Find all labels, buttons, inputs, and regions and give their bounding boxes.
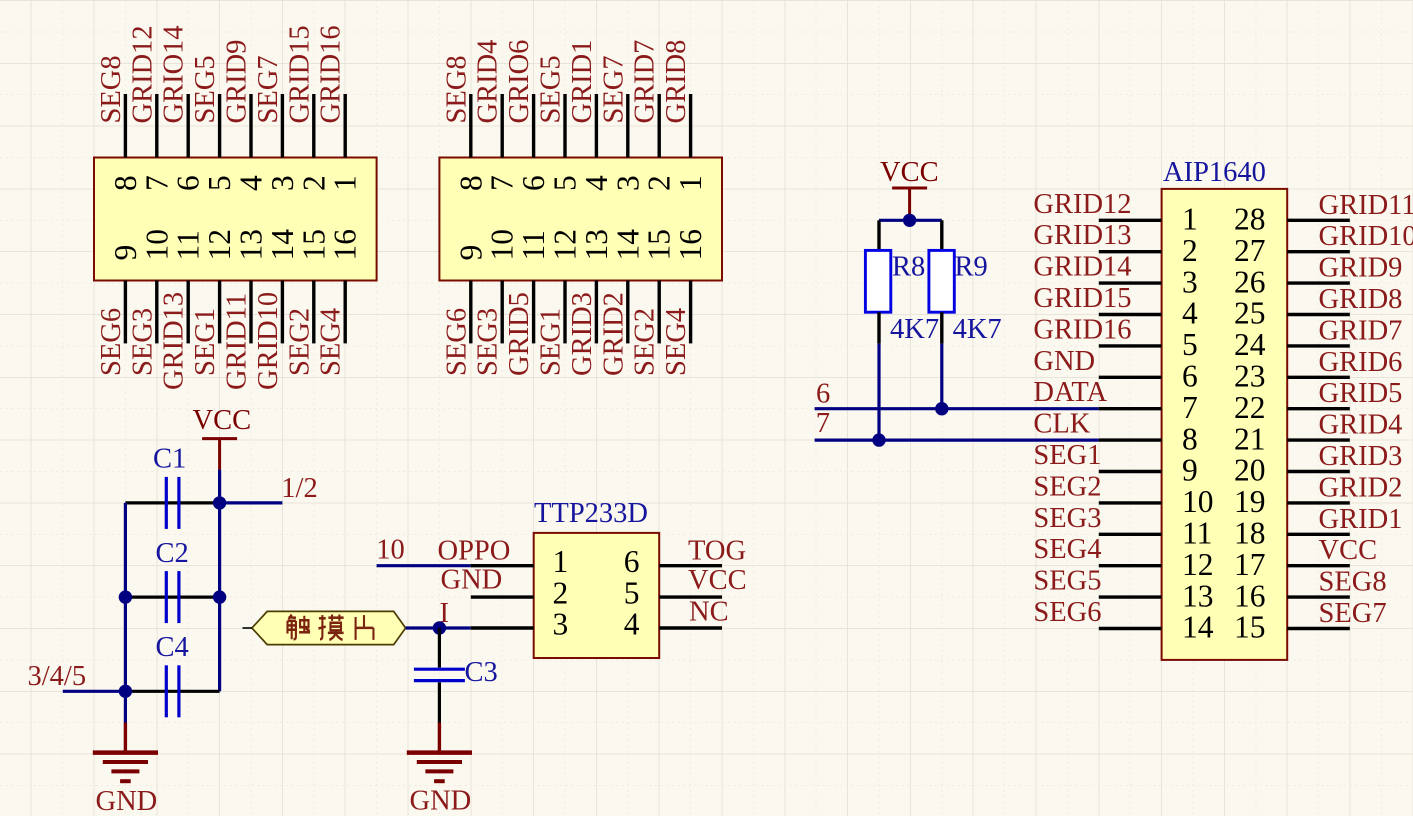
- svg-text:AIP1640: AIP1640: [1163, 157, 1266, 188]
- capacitor C2: [166, 571, 179, 623]
- port text 触摸片 (hand-drawn strokes): [288, 615, 374, 640]
- capacitor C1: [166, 477, 179, 529]
- P2 top pin 5 (SEG5): [548, 94, 583, 191]
- svg-text:12: 12: [548, 229, 583, 261]
- svg-text:TTP233D: TTP233D: [534, 498, 648, 529]
- svg-text:SEG7: SEG7: [253, 55, 284, 123]
- junction touch node: [433, 621, 446, 634]
- svg-text:4: 4: [579, 175, 614, 191]
- svg-text:6: 6: [816, 378, 830, 409]
- P2 top pin 3 (SEG7): [610, 94, 645, 191]
- junction node 3/4/5: [119, 685, 132, 698]
- junction C2 left: [119, 590, 132, 603]
- svg-text:SEG8: SEG8: [1319, 567, 1387, 598]
- svg-text:10: 10: [1182, 484, 1214, 519]
- svg-text:GRID5: GRID5: [1319, 378, 1403, 409]
- wire VCC stem to node 1/2: [218, 470, 221, 503]
- svg-text:SEG1: SEG1: [1033, 440, 1101, 471]
- U2 pin 12 (SEG4): [1099, 547, 1214, 582]
- svg-text:GRID9: GRID9: [222, 40, 253, 124]
- svg-text:7: 7: [485, 175, 520, 191]
- wire DATA net: [815, 407, 1099, 410]
- svg-text:2: 2: [1182, 233, 1198, 268]
- svg-text:4: 4: [624, 606, 640, 641]
- svg-text:GRID3: GRID3: [1319, 441, 1403, 472]
- svg-text:4: 4: [1182, 296, 1198, 331]
- P1 top pin 5 (SEG5): [202, 94, 237, 191]
- svg-text:24: 24: [1234, 327, 1266, 362]
- U2 pin 26 (GRID9): [1234, 264, 1350, 299]
- svg-text:5: 5: [548, 175, 583, 191]
- U2 pin 14 (SEG6): [1099, 610, 1214, 645]
- svg-text:4K7: 4K7: [953, 314, 1002, 345]
- svg-text:9: 9: [453, 245, 488, 261]
- svg-text:1: 1: [553, 544, 569, 579]
- svg-text:GRID15: GRID15: [1033, 283, 1131, 314]
- U2 pin 6 (GND): [1099, 359, 1198, 394]
- P2 top pin 7 (GRID4): [485, 94, 520, 191]
- svg-text:9: 9: [108, 245, 143, 261]
- U2 pin 3 (GRID14): [1099, 264, 1198, 299]
- svg-text:SEG5: SEG5: [1033, 566, 1101, 597]
- svg-text:SEG7: SEG7: [1319, 598, 1387, 629]
- P1 bottom pin 13 (GRID11): [234, 229, 269, 343]
- svg-text:25: 25: [1234, 296, 1266, 331]
- U2 pin 27 (GRID10): [1234, 233, 1350, 268]
- svg-text:GND: GND: [410, 786, 472, 817]
- svg-text:10: 10: [485, 229, 520, 261]
- svg-text:GRID10: GRID10: [253, 292, 284, 390]
- svg-text:SEG6: SEG6: [441, 308, 472, 376]
- junction DATA-R9: [935, 402, 948, 415]
- svg-text:GRID16: GRID16: [316, 25, 347, 123]
- svg-text:6: 6: [171, 175, 206, 191]
- svg-text:SEG3: SEG3: [473, 308, 504, 376]
- svg-text:5: 5: [1182, 327, 1198, 362]
- svg-text:27: 27: [1234, 233, 1266, 268]
- U2 pin 23 (GRID6): [1234, 359, 1350, 394]
- svg-text:15: 15: [642, 229, 677, 261]
- ground symbol (touch circuit): [407, 723, 472, 782]
- svg-text:28: 28: [1234, 202, 1266, 237]
- U2 pin 28 (GRID11): [1234, 202, 1350, 237]
- svg-text:SEG8: SEG8: [441, 55, 472, 123]
- U1 pin 1 stub: [471, 564, 534, 567]
- wire to net 1/2: [220, 501, 283, 504]
- svg-text:GRID4: GRID4: [1319, 410, 1403, 441]
- svg-text:SEG4: SEG4: [1033, 534, 1101, 565]
- wire left vertical bus: [124, 503, 127, 691]
- svg-text:1/2: 1/2: [281, 473, 317, 504]
- P2 bottom pin 16 (SEG4): [673, 229, 708, 343]
- svg-text:13: 13: [579, 229, 614, 261]
- svg-text:6: 6: [1182, 359, 1198, 394]
- svg-text:8: 8: [108, 175, 143, 191]
- svg-text:14: 14: [610, 229, 645, 261]
- svg-text:11: 11: [1182, 516, 1212, 551]
- svg-text:20: 20: [1234, 453, 1266, 488]
- P1 top pin 2 (GRID15): [296, 94, 331, 191]
- svg-text:14: 14: [1182, 610, 1214, 645]
- svg-text:9: 9: [1182, 453, 1198, 488]
- svg-text:SEG3: SEG3: [1033, 503, 1101, 534]
- resistor R9 body: [929, 250, 954, 312]
- svg-text:10: 10: [376, 535, 405, 566]
- junction node 1/2: [213, 496, 226, 509]
- wire C4 row: [125, 690, 219, 693]
- U2 pin 18 (GRID1): [1234, 516, 1350, 551]
- svg-text:GRIO14: GRIO14: [159, 25, 190, 123]
- svg-text:11: 11: [171, 230, 206, 260]
- R9 bottom pin: [940, 312, 943, 343]
- U2 pin 17 (VCC): [1234, 547, 1350, 582]
- svg-text:GRID7: GRID7: [1319, 315, 1403, 346]
- U1 pin 6 stub: [659, 564, 722, 567]
- U2 pin 16 (SEG8): [1234, 578, 1350, 613]
- svg-text:13: 13: [234, 229, 269, 261]
- svg-text:3: 3: [265, 175, 300, 191]
- touch IC U1 TTP233D body: [534, 533, 660, 658]
- R8 top pin: [877, 220, 880, 250]
- svg-text:NC: NC: [689, 597, 729, 628]
- wire to net 3/4/5: [63, 690, 126, 693]
- svg-text:SEG2: SEG2: [284, 308, 315, 376]
- svg-text:16: 16: [328, 229, 363, 261]
- svg-text:5: 5: [202, 175, 237, 191]
- wire C3 to GND: [438, 682, 441, 723]
- P1 bottom pin 12 (SEG1): [202, 229, 237, 343]
- svg-text:12: 12: [1182, 547, 1214, 582]
- svg-text:DATA: DATA: [1033, 377, 1107, 408]
- P2 top pin 8 (SEG8): [453, 94, 488, 191]
- ground symbol (capacitor bank): [93, 723, 158, 782]
- svg-text:GRID10: GRID10: [1319, 221, 1413, 252]
- svg-text:3: 3: [553, 606, 569, 641]
- svg-text:23: 23: [1234, 359, 1266, 394]
- power symbol VCC (capacitor bank): [202, 439, 237, 470]
- P2 top pin 2 (GRID7): [642, 94, 677, 191]
- capacitor C3: [414, 669, 465, 680]
- svg-text:GRID12: GRID12: [1033, 189, 1131, 220]
- svg-text:VCC: VCC: [688, 565, 747, 596]
- svg-text:GRID14: GRID14: [1033, 252, 1131, 283]
- junction C2 right: [213, 590, 226, 603]
- P1 top pin 6 (GRIO14): [171, 94, 206, 191]
- svg-text:VCC: VCC: [880, 157, 939, 188]
- svg-text:C2: C2: [156, 538, 189, 569]
- P2 top pin 4 (GRID1): [579, 94, 614, 191]
- connector P1 body: [94, 158, 377, 281]
- svg-text:5: 5: [624, 575, 640, 610]
- svg-text:4K7: 4K7: [890, 314, 939, 345]
- svg-text:C4: C4: [156, 632, 189, 663]
- svg-text:GRID13: GRID13: [1033, 220, 1131, 251]
- wire C2 row: [125, 595, 219, 598]
- svg-text:13: 13: [1182, 578, 1214, 613]
- P2 top pin 6 (GRIO6): [516, 94, 551, 191]
- svg-text:SEG4: SEG4: [316, 308, 347, 376]
- svg-text:GRID12: GRID12: [127, 25, 158, 123]
- svg-text:GRID6: GRID6: [1319, 347, 1403, 378]
- svg-text:GRID16: GRID16: [1033, 314, 1131, 345]
- svg-text:GRID7: GRID7: [630, 40, 661, 124]
- P1 top pin 1 (GRID16): [328, 94, 363, 191]
- U2 pin 11 (SEG3): [1099, 516, 1213, 551]
- P2 bottom pin 11 (GRID5): [516, 230, 551, 343]
- P2 bottom pin 12 (SEG1): [548, 229, 583, 343]
- svg-text:SEG3: SEG3: [127, 308, 158, 376]
- resistor R8 body: [865, 250, 890, 312]
- svg-text:SEG7: SEG7: [598, 55, 629, 123]
- svg-text:GRID11: GRID11: [1319, 190, 1413, 221]
- svg-text:GRIO6: GRIO6: [504, 40, 535, 124]
- svg-text:VCC: VCC: [193, 405, 252, 436]
- U2 pin 15 (SEG7): [1234, 610, 1350, 645]
- P2 bottom pin 9 (SEG6): [453, 245, 488, 344]
- U1 pin 4 stub: [659, 626, 722, 629]
- U2 pin 22 (GRID5): [1234, 390, 1350, 425]
- svg-text:SEG5: SEG5: [190, 55, 221, 123]
- U2 pin 8 (CLK): [1099, 421, 1198, 456]
- svg-text:21: 21: [1234, 421, 1266, 456]
- svg-text:SEG2: SEG2: [1033, 471, 1101, 502]
- P1 bottom pin 16 (SEG4): [328, 229, 363, 343]
- U2 pin 2 (GRID13): [1099, 233, 1198, 268]
- svg-text:GND: GND: [1033, 346, 1095, 377]
- svg-text:17: 17: [1234, 547, 1266, 582]
- svg-text:7: 7: [139, 175, 174, 191]
- svg-text:GRID4: GRID4: [473, 40, 504, 124]
- U1 pin 2 stub: [471, 595, 534, 598]
- P1 bottom pin 9 (SEG6): [108, 245, 143, 344]
- wire to GND (capacitor bank): [124, 691, 127, 723]
- U1 pin 5 stub: [659, 595, 722, 598]
- port 触摸片 (touch pad): [252, 611, 406, 644]
- svg-text:SEG1: SEG1: [190, 308, 221, 376]
- P2 top pin 1 (GRID8): [673, 94, 708, 191]
- U2 pin 5 (GRID16): [1099, 327, 1198, 362]
- svg-text:SEG1: SEG1: [536, 308, 567, 376]
- svg-text:CLK: CLK: [1033, 409, 1090, 440]
- svg-text:3/4/5: 3/4/5: [28, 661, 87, 692]
- wire VCC rail R8-R9: [879, 219, 942, 222]
- U2 pin 20 (GRID3): [1234, 453, 1350, 488]
- U2 pin 21 (GRID4): [1234, 421, 1350, 456]
- svg-text:2: 2: [296, 175, 331, 191]
- svg-text:GRID15: GRID15: [284, 25, 315, 123]
- svg-text:11: 11: [516, 230, 551, 260]
- svg-text:2: 2: [553, 575, 569, 610]
- svg-text:8: 8: [453, 175, 488, 191]
- R8 bottom pin: [877, 312, 880, 343]
- svg-text:GRID8: GRID8: [661, 40, 692, 124]
- svg-text:SEG6: SEG6: [96, 308, 127, 376]
- P2 bottom pin 13 (GRID3): [579, 229, 614, 343]
- svg-text:1: 1: [673, 175, 708, 191]
- svg-text:7: 7: [816, 408, 830, 439]
- R9 top pin: [940, 220, 943, 250]
- U2 pin 25 (GRID8): [1234, 296, 1350, 331]
- svg-text:1: 1: [328, 175, 363, 191]
- svg-text:15: 15: [296, 229, 331, 261]
- connector P2 body: [439, 158, 722, 281]
- svg-text:GRID5: GRID5: [504, 292, 535, 376]
- U2 pin 24 (GRID7): [1234, 327, 1350, 362]
- svg-text:3: 3: [1182, 264, 1198, 299]
- P1 bottom pin 14 (GRID10): [265, 229, 300, 344]
- U2 pin 19 (GRID2): [1234, 484, 1350, 519]
- U2 pin 10 (SEG2): [1099, 484, 1214, 519]
- power symbol VCC (pull-ups): [892, 188, 927, 219]
- svg-text:GRID1: GRID1: [1319, 504, 1403, 535]
- wire net 10 to pin 1: [377, 564, 471, 567]
- P1 top pin 7 (GRID12): [139, 94, 174, 191]
- U2 pin 1 (GRID12): [1099, 202, 1198, 237]
- svg-text:15: 15: [1234, 610, 1266, 645]
- svg-text:GRID13: GRID13: [159, 292, 190, 390]
- svg-text:GRID11: GRID11: [222, 293, 253, 390]
- svg-text:GRID1: GRID1: [567, 40, 598, 124]
- P1 bottom pin 10 (SEG3): [139, 229, 174, 343]
- svg-text:12: 12: [202, 229, 237, 261]
- svg-text:22: 22: [1234, 390, 1266, 425]
- svg-text:TOG: TOG: [688, 536, 746, 567]
- svg-text:SEG2: SEG2: [630, 308, 661, 376]
- svg-text:2: 2: [642, 175, 677, 191]
- P1 top pin 3 (SEG7): [265, 94, 300, 191]
- wire stub at port tip: [243, 627, 252, 629]
- P2 bottom pin 15 (SEG2): [642, 229, 677, 343]
- svg-text:GND: GND: [441, 565, 503, 596]
- svg-text:16: 16: [1234, 578, 1266, 613]
- svg-text:3: 3: [610, 175, 645, 191]
- svg-text:10: 10: [139, 229, 174, 261]
- svg-text:SEG4: SEG4: [661, 308, 692, 376]
- svg-text:R9: R9: [955, 252, 988, 283]
- wire touch pad to pin 3: [406, 626, 471, 629]
- U2 pin 7 (DATA): [1099, 390, 1198, 425]
- svg-text:8: 8: [1182, 421, 1198, 456]
- P1 bottom pin 11 (GRID13): [171, 230, 206, 343]
- U2 pin 13 (SEG5): [1099, 578, 1214, 613]
- svg-text:7: 7: [1182, 390, 1198, 425]
- svg-text:16: 16: [673, 229, 708, 261]
- svg-text:C1: C1: [153, 444, 186, 475]
- P2 bottom pin 14 (GRID2): [610, 229, 645, 344]
- U2 pin 4 (GRID15): [1099, 296, 1198, 331]
- svg-text:GND: GND: [96, 786, 158, 816]
- svg-text:GRID9: GRID9: [1319, 253, 1403, 284]
- P1 top pin 8 (SEG8): [108, 94, 143, 191]
- svg-text:4: 4: [234, 175, 269, 191]
- wire R9 to DATA net: [940, 344, 943, 409]
- driver IC U2 AIP1640 body: [1162, 189, 1288, 660]
- wire touch node to C3: [438, 628, 441, 668]
- P1 top pin 4 (GRID9): [234, 94, 269, 191]
- svg-text:18: 18: [1234, 516, 1266, 551]
- P1 bottom pin 15 (SEG2): [296, 229, 331, 343]
- svg-text:SEG5: SEG5: [536, 55, 567, 123]
- svg-text:6: 6: [624, 544, 640, 579]
- svg-text:OPPO: OPPO: [438, 536, 511, 567]
- svg-text:14: 14: [265, 229, 300, 261]
- svg-text:VCC: VCC: [1319, 535, 1378, 566]
- svg-text:1: 1: [1182, 202, 1198, 237]
- svg-text:GRID2: GRID2: [598, 292, 629, 376]
- junction CLK-R8: [872, 433, 885, 446]
- wire C1 row: [125, 501, 219, 504]
- svg-text:SEG6: SEG6: [1033, 597, 1101, 628]
- svg-text:SEG8: SEG8: [96, 55, 127, 123]
- wire R8 to CLK net: [877, 344, 880, 441]
- junction VCC rail: [903, 214, 916, 227]
- U2 pin 9 (SEG1): [1099, 453, 1198, 488]
- U1 pin 3 stub: [471, 626, 534, 629]
- svg-text:6: 6: [516, 175, 551, 191]
- wire CLK net: [815, 439, 1099, 442]
- svg-text:R8: R8: [892, 252, 925, 283]
- svg-text:19: 19: [1234, 484, 1266, 519]
- P2 bottom pin 10 (SEG3): [485, 229, 520, 343]
- svg-text:C3: C3: [465, 657, 498, 688]
- svg-text:GRID3: GRID3: [567, 292, 598, 376]
- svg-text:26: 26: [1234, 264, 1266, 299]
- wire right vertical bus: [218, 503, 221, 691]
- capacitor C4: [166, 665, 179, 717]
- svg-text:GRID2: GRID2: [1319, 472, 1403, 503]
- svg-text:GRID8: GRID8: [1319, 284, 1403, 315]
